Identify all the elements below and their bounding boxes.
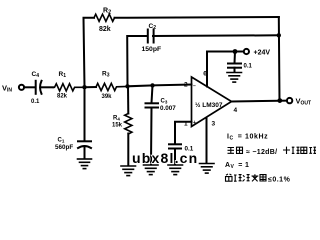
terminal +24V <box>244 49 271 57</box>
ground R4 <box>121 166 136 176</box>
svg-text:ubx8l.cn: ubx8l.cn <box>132 150 198 166</box>
svg-text:≈ −12dB/: ≈ −12dB/ <box>246 149 277 156</box>
annotation Av <box>225 162 249 170</box>
node A junction <box>82 85 86 89</box>
svg-text:½ LM307: ½ LM307 <box>195 101 223 109</box>
annotation THD <box>226 174 291 183</box>
svg-text:C3: C3 <box>161 99 168 105</box>
svg-text:150pF: 150pF <box>142 46 162 53</box>
svg-text:≤0.1%: ≤0.1% <box>268 176 291 183</box>
svg-text:0.1: 0.1 <box>244 63 253 69</box>
terminal Vout <box>287 98 292 103</box>
node output junction <box>277 98 282 103</box>
svg-text:82k: 82k <box>57 94 68 100</box>
label Vin <box>2 84 12 94</box>
capacitor C3 <box>146 85 177 164</box>
svg-text:39k: 39k <box>102 94 113 100</box>
node C junction <box>150 83 154 87</box>
ground C3 <box>144 165 159 175</box>
svg-text:C2: C2 <box>149 23 157 31</box>
op-amp U1 1/2 LM307 <box>192 77 232 127</box>
resistor R4 <box>112 86 132 165</box>
svg-text:0.007: 0.007 <box>160 105 176 112</box>
power +24V node <box>233 49 244 54</box>
ground bypass capacitor <box>227 73 242 83</box>
node B junction <box>125 84 129 88</box>
resistor R1 <box>53 71 84 100</box>
svg-text:560pF: 560pF <box>55 144 73 151</box>
wire node B to node C <box>128 84 153 87</box>
svg-text:2: 2 <box>184 82 188 89</box>
svg-text:C1: C1 <box>58 137 65 143</box>
pin 6 label <box>203 71 207 78</box>
annotation fc <box>227 134 268 142</box>
svg-text:IC= 10kHz: IC= 10kHz <box>227 134 268 142</box>
wire op-amp output <box>232 100 287 103</box>
svg-text:R4: R4 <box>113 115 120 121</box>
label Vout <box>296 97 312 107</box>
svg-text:6: 6 <box>203 71 207 78</box>
resistor R2 feedback <box>84 7 279 87</box>
wire node A to R3 <box>85 86 97 88</box>
capacitor C2 feedback <box>127 23 279 86</box>
svg-text:−: − <box>193 84 196 90</box>
node C2-feedback junction <box>277 33 281 37</box>
pin 3 label <box>212 120 216 127</box>
svg-text:4: 4 <box>234 107 238 114</box>
pin 4 label <box>234 107 238 114</box>
capacitor C4 <box>31 71 53 105</box>
svg-text:15k: 15k <box>112 122 123 128</box>
svg-text:R1: R1 <box>59 71 67 79</box>
pin 3 wire <box>206 118 208 163</box>
resistor R3 <box>96 71 128 101</box>
ground C1 <box>78 159 92 169</box>
capacitor 0.1 bypass <box>228 52 253 72</box>
capacitor C1 <box>55 87 91 158</box>
ground pin1 capacitor <box>168 165 183 175</box>
pin 2 label <box>184 82 188 89</box>
ground pin 3 <box>200 164 215 174</box>
pin 6 wire <box>207 52 233 87</box>
svg-text:+: + <box>193 120 196 126</box>
svg-text:C4: C4 <box>32 71 40 79</box>
svg-text:82k: 82k <box>99 26 111 33</box>
terminal Vin <box>19 85 24 90</box>
watermark ubx8l.cn <box>132 150 198 166</box>
svg-text:R3: R3 <box>102 71 110 79</box>
svg-text:+24V: +24V <box>254 50 271 57</box>
svg-text:R2: R2 <box>103 7 111 15</box>
wire feedback vertical <box>278 17 281 101</box>
svg-text:0.1: 0.1 <box>31 99 40 105</box>
pin 1 label <box>184 120 188 127</box>
annotation slope <box>228 147 317 156</box>
svg-text:3: 3 <box>212 120 216 127</box>
wire node C to op-amp pin 2 <box>153 84 192 87</box>
svg-text:1: 1 <box>184 120 188 127</box>
wire Vin to C4 <box>24 86 34 88</box>
pin 1 wire and capacitor 0.1 <box>169 122 194 164</box>
